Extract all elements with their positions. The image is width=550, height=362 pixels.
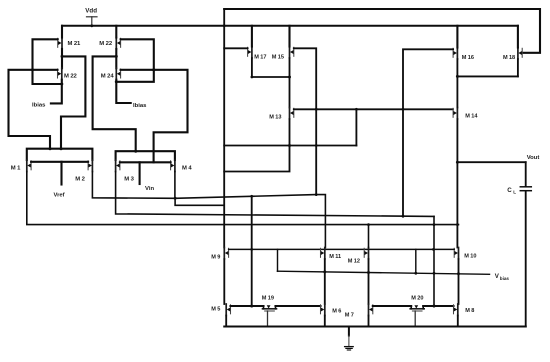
wire M21 source / M23 drain xyxy=(61,49,63,68)
wire M2 drain line L1 xyxy=(92,172,325,248)
wire bias line xyxy=(224,145,356,147)
svg-text:M 1: M 1 xyxy=(11,166,21,172)
svg-text:M 15: M 15 xyxy=(272,54,284,60)
wire M11 source xyxy=(324,259,326,304)
wire M8 source xyxy=(457,316,459,327)
svg-text:M 13: M 13 xyxy=(269,114,281,120)
wire M14 drain xyxy=(456,76,458,107)
wire bottom gate chain A1 xyxy=(231,305,264,307)
capacitor CL xyxy=(520,186,531,188)
transistor M19 xyxy=(263,308,277,310)
wire mid long vertical xyxy=(251,196,253,306)
transistor M17 xyxy=(251,47,253,59)
wire R-S jog vertical xyxy=(433,216,435,306)
wire M22 source / M24 drain xyxy=(115,49,117,68)
wire pair2 tail rail xyxy=(116,151,175,160)
wire M19 leads xyxy=(263,306,265,309)
svg-text:Ibias: Ibias xyxy=(32,102,46,108)
svg-text:M 14: M 14 xyxy=(465,113,478,119)
svg-text:M 19: M 19 xyxy=(262,295,274,301)
svg-text:M 12: M 12 xyxy=(348,258,360,264)
svg-text:M 21: M 21 xyxy=(68,41,82,47)
svg-text:bias: bias xyxy=(500,276,510,281)
svg-text:M 3: M 3 xyxy=(124,177,134,183)
svg-text:M 11: M 11 xyxy=(329,254,341,260)
transistor M5 xyxy=(225,304,227,316)
wire pair1 gate bus xyxy=(31,161,88,163)
transistor M4 xyxy=(174,160,176,172)
wire M17 source to M15 source xyxy=(252,76,290,78)
wire M24 source to Ibias xyxy=(116,80,130,103)
wire M18 drain xyxy=(517,26,519,48)
transistor M14 xyxy=(456,108,458,120)
ground xyxy=(348,327,350,336)
svg-text:M 4: M 4 xyxy=(182,166,192,172)
svg-text:C: C xyxy=(507,187,512,194)
wire Vref drop xyxy=(60,162,62,185)
svg-text:M 20: M 20 xyxy=(411,295,423,301)
svg-text:M 8: M 8 xyxy=(465,308,474,314)
wire M22 source branch to pair2 tail xyxy=(93,56,136,151)
wire gate bus connector left xyxy=(277,249,279,271)
wire gate line drop xyxy=(355,109,357,145)
transistor M2 xyxy=(91,160,93,172)
svg-text:M 7: M 7 xyxy=(345,312,354,318)
wire Vout line xyxy=(459,161,526,163)
wire M20 gate down xyxy=(414,311,416,327)
wire M23 source to Ibias xyxy=(51,80,62,104)
wire CL bottom lead xyxy=(525,192,527,327)
transistor M21 xyxy=(61,38,63,50)
wire M10 source to M8 drain xyxy=(458,259,460,304)
transistor M10 xyxy=(458,248,460,260)
wire CL top lead xyxy=(525,162,527,186)
transistor M9 xyxy=(223,248,225,260)
wire M15 drain xyxy=(288,26,290,47)
wire M13-M14 gate line xyxy=(316,108,453,110)
transistor M6 xyxy=(324,304,326,316)
transistor M16 xyxy=(456,48,458,60)
svg-text:Vref: Vref xyxy=(54,192,65,198)
transistor M13 xyxy=(289,108,291,120)
svg-text:Vout: Vout xyxy=(527,155,540,161)
wire Vin drop xyxy=(139,162,141,184)
wire M22 gate to M24 source xyxy=(116,39,154,82)
wire M12 source xyxy=(368,259,370,304)
wire M22 drain xyxy=(115,26,117,38)
svg-text:M 6: M 6 xyxy=(332,308,341,314)
transistor M18 xyxy=(517,48,519,60)
wire M19 gate down xyxy=(267,311,269,327)
wire M13 source xyxy=(224,119,289,172)
wire M14 source big vertical xyxy=(456,119,458,248)
wire M18 source xyxy=(517,59,519,76)
wire M5 source xyxy=(225,316,227,327)
wire M16 drain xyxy=(456,26,458,48)
wire M21 source branch xyxy=(61,56,85,148)
transistor M1 xyxy=(26,160,28,172)
wire M4 drain xyxy=(174,172,176,199)
wire M9 gate bus xyxy=(229,248,434,250)
svg-text:Ibias: Ibias xyxy=(133,103,147,109)
svg-text:M 5: M 5 xyxy=(211,306,220,312)
wire M1 drain line S xyxy=(27,172,459,225)
wire M9 source xyxy=(223,259,225,304)
svg-text:M 22: M 22 xyxy=(64,74,78,80)
svg-text:M 17: M 17 xyxy=(254,54,266,60)
wire M17 drain xyxy=(251,26,253,47)
svg-text:M 24: M 24 xyxy=(101,74,115,80)
svg-text:M 9: M 9 xyxy=(211,254,220,260)
wire M17 gate xyxy=(224,47,247,49)
wire bottom gate chain B2 xyxy=(423,305,453,307)
wire bottom gate chain A2 xyxy=(276,305,321,307)
wire M20 leads xyxy=(410,306,412,309)
transistor M12 xyxy=(368,248,370,260)
wire box left edge xyxy=(223,9,225,248)
wire M10 gate lead xyxy=(434,248,455,250)
wire M15 source to M13 drain xyxy=(289,58,291,108)
transistor M15 xyxy=(289,47,291,59)
transistor M23 (labelled M22) xyxy=(61,68,63,80)
wire pair1 tail rail xyxy=(27,149,93,160)
transistor M11 xyxy=(324,248,326,260)
transistor M7 xyxy=(368,304,370,316)
svg-text:Vin: Vin xyxy=(145,186,154,192)
wire M12 drain xyxy=(368,225,370,248)
wire M7 source xyxy=(368,316,370,327)
svg-text:M 18: M 18 xyxy=(503,55,515,61)
wire M13 gate lead xyxy=(294,108,316,110)
transistor M22 (top right) xyxy=(115,38,117,50)
Vdd supply symbol xyxy=(87,16,98,18)
wire Vbias bus xyxy=(278,271,490,274)
transistor M8 xyxy=(457,304,459,316)
wire M17 source xyxy=(251,58,253,77)
wire Vdd rail xyxy=(62,25,518,27)
wire pair2 gate bus xyxy=(120,161,171,163)
wire M15 gate vertical xyxy=(294,48,316,194)
wire bottom ground rail xyxy=(224,325,525,327)
transistor M20 xyxy=(410,308,424,310)
wire gate bus connector right xyxy=(415,249,417,273)
svg-text:L: L xyxy=(513,189,516,194)
transistor M24 xyxy=(115,68,117,80)
wire M21 drain xyxy=(61,26,63,38)
wire M16 source xyxy=(456,59,458,76)
wire summing node to box edge xyxy=(175,198,224,205)
wire M3 drain line R xyxy=(116,172,434,217)
wire M16/M18 source join xyxy=(457,75,518,77)
svg-text:M 10: M 10 xyxy=(464,253,476,259)
wire M24 gate to Vin bus xyxy=(121,70,188,163)
wire M21 gate to M22 source xyxy=(33,39,62,84)
wire M16 gate vertical xyxy=(403,49,453,215)
svg-text:M 16: M 16 xyxy=(462,55,474,61)
wire M23 gate xyxy=(9,70,58,149)
wire M6 source xyxy=(324,316,326,327)
wire bottom gate chain B1 xyxy=(373,305,411,307)
transistor M3 xyxy=(115,160,117,172)
wire box top loop to M18 gate xyxy=(224,9,540,53)
svg-text:M 22: M 22 xyxy=(99,41,113,47)
svg-text:Vdd: Vdd xyxy=(85,8,97,15)
svg-text:M 2: M 2 xyxy=(75,177,85,183)
